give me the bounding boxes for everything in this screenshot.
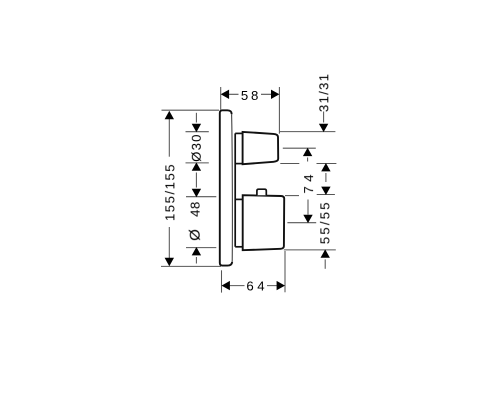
dim 58 line	[222, 93, 239, 95]
svg-text:Ø: Ø	[187, 229, 204, 241]
arrow 31/31 (down)	[319, 124, 328, 132]
arrow 64 left	[222, 281, 230, 290]
tick under chain arrow up	[317, 163, 337, 165]
dim 155/155 extension bottom	[161, 265, 221, 267]
dim 74 arrow tail top	[307, 158, 309, 162]
dim 155/155 line	[168, 112, 170, 157]
arrow d30 bottom (up)	[192, 162, 201, 170]
svg-text:Ø30: Ø30	[189, 133, 204, 162]
dim 155/155 extension top	[162, 109, 220, 111]
dim 58 extension line left	[220, 87, 222, 110]
svg-text:64: 64	[246, 278, 268, 293]
tick over chain arrow down	[317, 194, 335, 196]
arrow 155/155 top	[165, 111, 174, 119]
dim 74 link line	[307, 200, 309, 215]
svg-text:48: 48	[188, 201, 203, 217]
dim d48 tail	[195, 257, 197, 264]
plate face edge (thin)	[231, 114, 234, 262]
arrow 64 right	[277, 281, 285, 290]
dim d48 tick top	[186, 196, 216, 198]
lower knob (volume handle)	[243, 195, 285, 250]
dim d30/d48 middle link	[195, 173, 197, 188]
dim 64 extension line left	[221, 270, 223, 292]
chain arrow down at knob2 top	[321, 187, 330, 195]
arrow 58 left	[221, 90, 229, 99]
dim 64 line	[223, 285, 245, 287]
lever tab on lower knob	[257, 189, 266, 195]
upper knob (temperature handle)	[243, 132, 279, 164]
arrow d30 top (down)	[192, 124, 201, 132]
arrow 155/155 bottom	[165, 258, 174, 266]
svg-text:31/31: 31/31	[317, 73, 332, 113]
dim 74 bottom reference line	[287, 222, 316, 224]
knob2 top extension line	[285, 195, 299, 197]
arrow 74 bottom (down)	[303, 215, 312, 223]
dim 58 extension line right	[278, 87, 280, 134]
dim 74 top reference line	[283, 147, 316, 149]
dim 31/31 line	[323, 112, 325, 123]
sleeve column left edge	[234, 133, 236, 246]
dim d30 tick top	[186, 131, 209, 133]
arrow d48 bottom (up)	[192, 247, 201, 255]
dim d30 tick bottom	[186, 162, 209, 164]
dim 64 extension line right	[284, 251, 286, 292]
knob1 bottom extension line	[280, 163, 299, 165]
svg-text:58: 58	[241, 88, 261, 103]
svg-text:74: 74	[301, 170, 316, 194]
chain arrow up at knob1 bottom	[321, 163, 330, 171]
dim 55/55 tail	[324, 259, 326, 268]
svg-text:155/155: 155/155	[162, 163, 177, 221]
arrow d48 top (down)	[192, 189, 201, 197]
stem1 top edge	[235, 132, 242, 134]
stem1 bottom edge	[235, 163, 243, 165]
dim d48 tick bottom	[186, 247, 216, 249]
arrow 55/55 bottom (up)	[321, 249, 330, 257]
arrow 58 right	[271, 90, 279, 99]
stem2 bottom edge	[235, 246, 242, 248]
dim d30 line top	[195, 113, 197, 123]
chain link line	[325, 173, 327, 182]
stem2 top edge	[235, 198, 242, 200]
escutcheon plate (side view)	[220, 110, 233, 265]
knob1 top extension line	[280, 131, 335, 133]
arrow 74 top (up)	[303, 148, 312, 156]
svg-text:55/55: 55/55	[317, 200, 332, 244]
knob2 bottom extension line	[284, 249, 336, 251]
